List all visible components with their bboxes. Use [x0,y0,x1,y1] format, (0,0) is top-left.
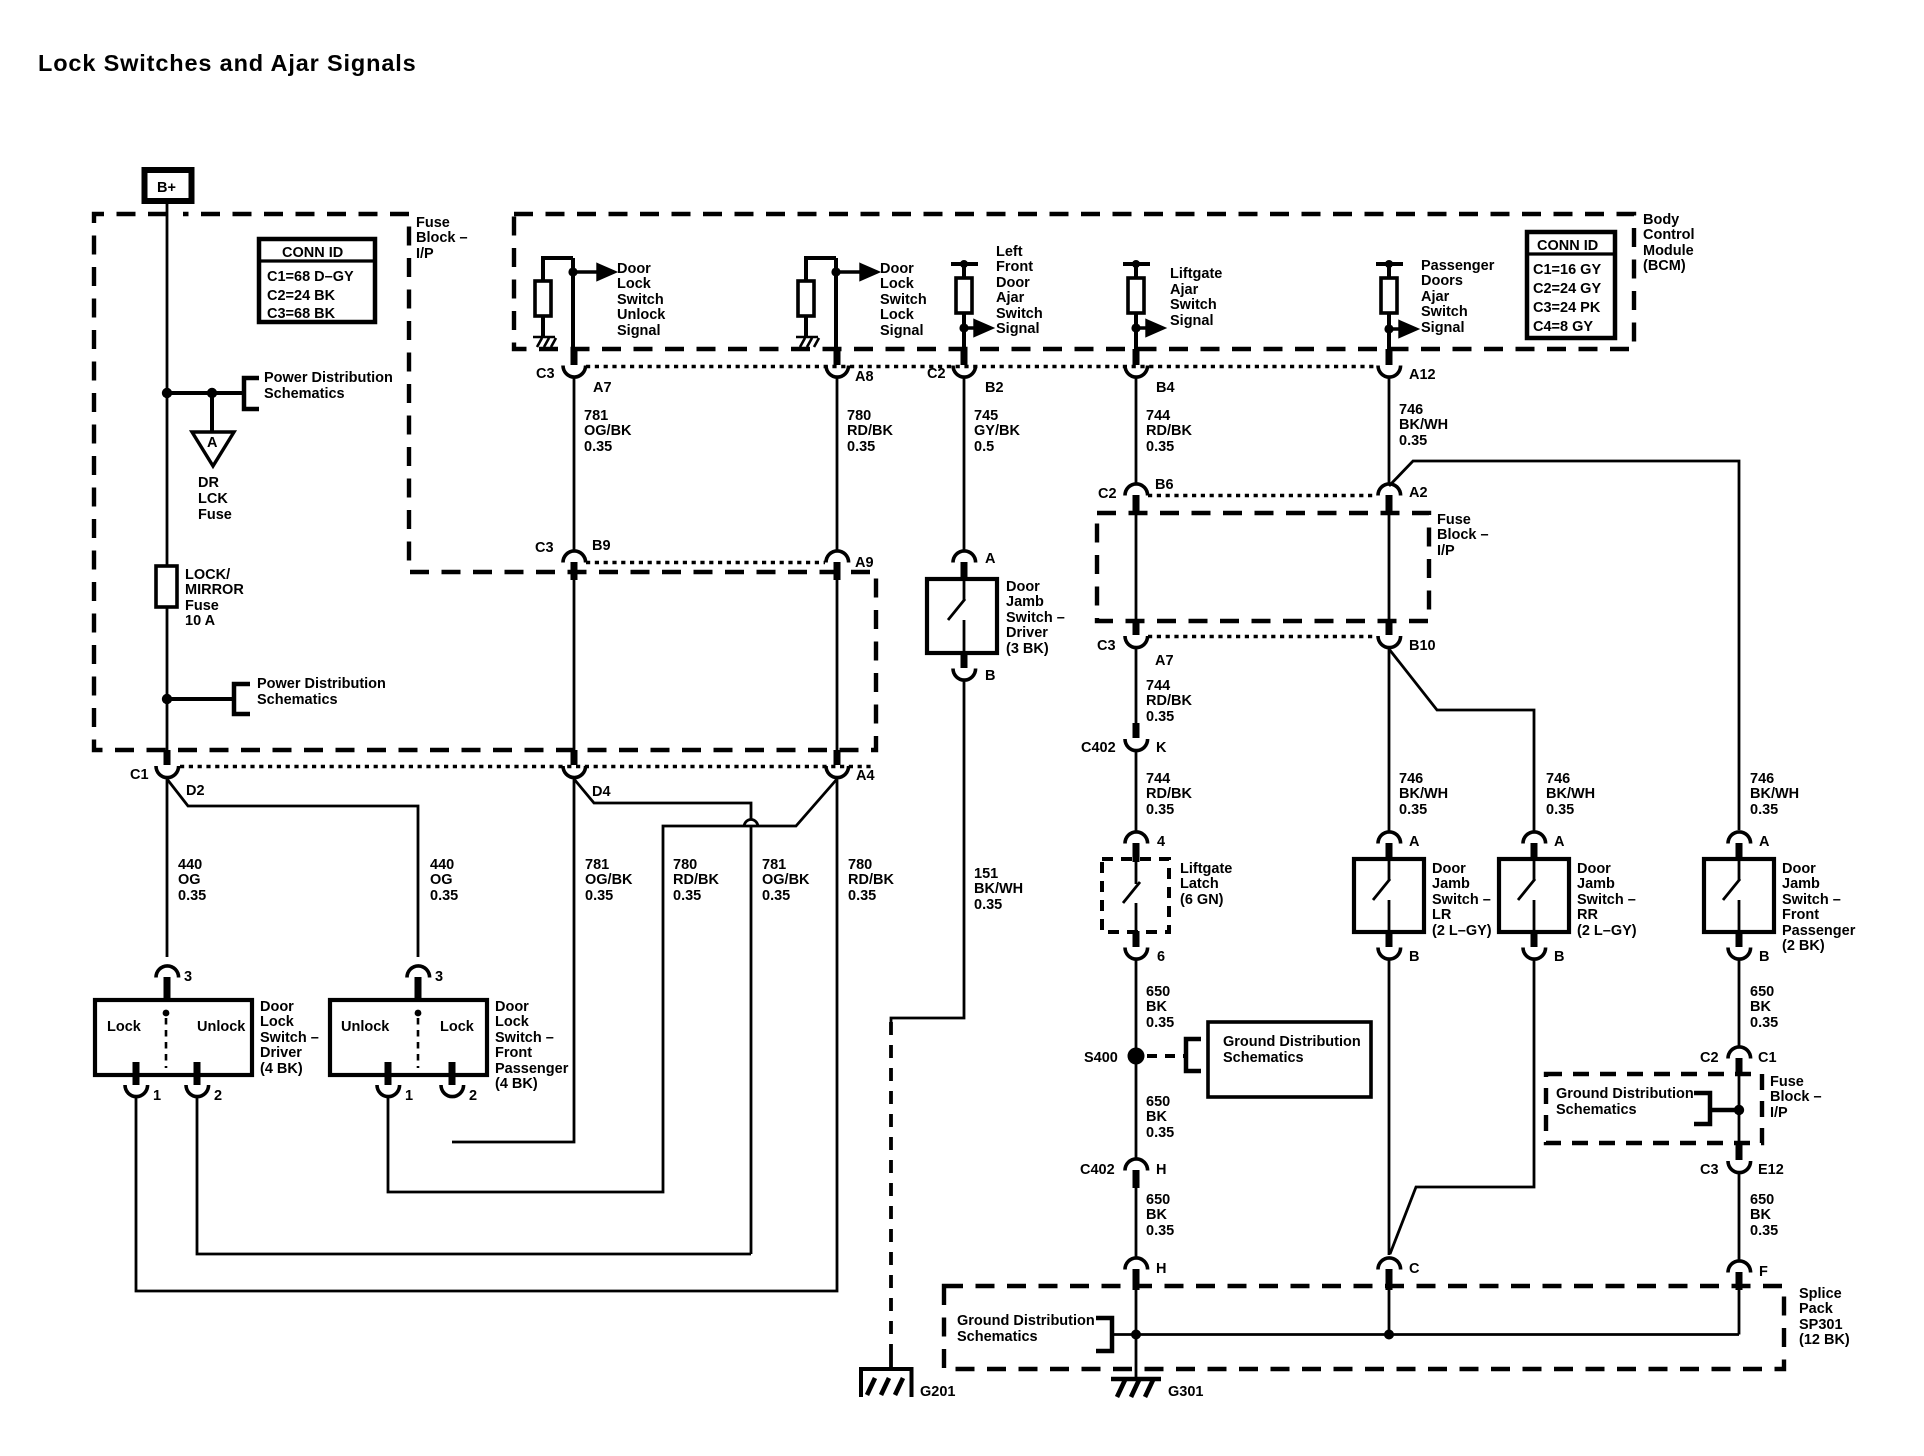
wire hop over 826 line [744,820,758,1255]
wire A2 feed to front passenger jamb column [1389,461,1739,830]
svg-text:0.35: 0.35 [585,888,613,904]
svg-text:Unlock: Unlock [617,307,666,323]
svg-text:Passenger: Passenger [1421,258,1495,274]
svg-text:C3: C3 [1097,638,1116,654]
svg-text:6: 6 [1157,949,1165,965]
connector C1/D2 cup [156,766,179,778]
svg-text:Ground Distribution: Ground Distribution [1223,1034,1361,1050]
svg-text:440: 440 [178,857,202,873]
connector C3/B9 cap [563,551,586,563]
svg-text:RD/BK: RD/BK [673,872,719,888]
svg-text:Signal: Signal [1170,313,1214,329]
wire 650 BK from RR jamb merging at C [1390,959,1534,1254]
wire D2 to passenger lock switch pin 3 [167,779,418,957]
svg-text:Switch: Switch [617,292,664,308]
Fuse Block - I/P dashed outline (left, stepped) [94,214,876,750]
svg-text:C402: C402 [1081,740,1116,756]
svg-text:RR: RR [1577,907,1598,923]
svg-text:Unlock: Unlock [197,1019,246,1035]
svg-text:0.35: 0.35 [1146,802,1174,818]
switch S1 Door Lock Switch - Driver [95,1000,252,1075]
wire D4 diagonal branch (781 OG/BK to driver pin 2) [574,779,751,819]
svg-text:0.35: 0.35 [1399,802,1427,818]
wire to DR LCK fuse triangle [210,393,214,432]
connector B4 pin stub [1133,349,1140,365]
svg-text:1: 1 [153,1088,161,1104]
svg-text:I/P: I/P [1770,1105,1788,1121]
svg-text:A8: A8 [855,369,874,385]
label Left Front Door Ajar Switch Signal [996,244,1043,337]
node arrow junction branch 5 [1384,324,1393,333]
connector B stub (FP jamb switch) [1736,931,1743,947]
svg-text:Signal: Signal [996,321,1040,337]
svg-text:Liftgate: Liftgate [1170,266,1222,282]
connector A cap (LR jamb switch) [1378,832,1401,844]
resistor R3 (LF door ajar input) [951,260,978,351]
wire 650 BK from LR jamb to splice C [1388,959,1391,1255]
connector A cap (FP jamb switch) [1728,832,1751,844]
svg-text:C3=24 PK: C3=24 PK [1533,300,1601,316]
connector pin 2 stub (passenger) [449,1062,456,1085]
svg-text:Schematics: Schematics [1223,1050,1304,1066]
connector pin 2 cup (passenger) [441,1085,464,1097]
svg-text:A: A [1554,834,1565,850]
Body Control Module dashed box [514,214,1634,349]
label Fuse Block - I/P (2) [1437,512,1489,559]
connector C2/C1 cap [1728,1047,1751,1059]
wire inside fuse block (A9 to A4) [836,580,839,751]
label Door Jamb Switch - LR (2 L-GY) [1432,861,1492,939]
connector C3/E12 cup [1728,1161,1751,1173]
svg-text:I/P: I/P [416,246,434,262]
bracket S400 reference [1186,1039,1201,1071]
svg-text:Ground Distribution: Ground Distribution [1556,1086,1694,1102]
resistor R5 (passenger doors ajar input) [1376,260,1403,351]
wire H drop to bus [1135,1290,1138,1378]
svg-text:BK/WH: BK/WH [1750,786,1799,802]
svg-text:A4: A4 [856,768,875,784]
svg-text:0.35: 0.35 [1146,1223,1174,1239]
svg-text:C402: C402 [1080,1162,1115,1178]
connector pin 3 stub (passenger lock switch) [415,977,422,1001]
svg-text:0.35: 0.35 [848,888,876,904]
wire inside fuse block 2 (A2 to B10) [1388,514,1391,621]
wire inside fuse block 2 (B6 to A7) [1135,514,1138,621]
svg-text:B: B [1759,949,1769,965]
connector B stub (driver jamb switch) [961,653,968,668]
label wire 151 BK/WH 0.35 [974,866,1023,913]
node arrow junction branch 4 [1131,323,1140,332]
svg-text:A12: A12 [1409,367,1436,383]
svg-text:C3: C3 [536,366,555,382]
switch S6 Door Jamb Switch - RR [1499,859,1569,932]
label wire 440 OG 0.35 (passenger) [430,857,458,904]
resistor R2 (lock signal pull-up) [798,258,836,337]
wire 780 RD/BK from A8 to A9 [836,377,839,551]
svg-text:0.35: 0.35 [974,897,1002,913]
label wire 745 GY/BK 0.5 [974,408,1020,455]
wire splice bus SP301 [1112,1333,1739,1336]
connector C402/H pin stub [1133,1170,1140,1188]
svg-text:CONN ID: CONN ID [282,245,343,261]
svg-text:0.35: 0.35 [430,888,458,904]
connector D4 pin stub [571,750,578,765]
svg-text:OG/BK: OG/BK [762,872,810,888]
wire 650 BK from C402 H to splice H [1135,1188,1138,1258]
node junction C on bus [1384,1330,1394,1340]
connector H cap (splice pack) [1125,1258,1148,1270]
svg-text:Signal: Signal [617,323,661,339]
svg-text:H: H [1156,1261,1166,1277]
resistor R4 (liftgate ajar input) [1123,260,1150,351]
svg-text:0.35: 0.35 [1750,1223,1778,1239]
wire inside fuse block 3 [1738,1075,1741,1143]
svg-text:Left: Left [996,244,1023,260]
svg-text:B10: B10 [1409,638,1436,654]
svg-text:650: 650 [1146,984,1170,1000]
label wire 780 RD/BK 0.35 (lower right) [848,857,894,904]
label wire 746 BK/WH 0.35 (RR) [1546,771,1595,818]
svg-text:(2 L–GY): (2 L–GY) [1577,923,1637,939]
label Ground Distribution Schematics (splice pack) [957,1313,1095,1345]
connector C3/A7 (fuse block) cup [1125,636,1148,648]
svg-text:Schematics: Schematics [264,386,345,402]
connector C402/K cup [1125,739,1148,751]
bracket fuse block 3 reference [1694,1093,1735,1124]
ground G301 [1111,1379,1203,1400]
connector 6 cup (liftgate latch) [1125,948,1148,960]
signal arrow branch 4 [1136,321,1163,335]
label wire 744 RD/BK 0.35 (upper) [1146,408,1192,455]
connector C3/A7 cup [563,366,586,378]
wire dashed drop to G201 [889,1022,893,1352]
Splice Pack SP301 dashed box [944,1286,1784,1369]
wire 781 OG/BK from A7 to B9 [573,377,576,551]
svg-text:C1=16 GY: C1=16 GY [1533,262,1601,278]
svg-text:Jamb: Jamb [1432,876,1470,892]
svg-text:C4=8 GY: C4=8 GY [1533,319,1593,335]
wire BCM branch 1 vertical [571,258,575,351]
label wire 780 RD/BK 0.35 (upper) [847,408,893,455]
svg-text:Switch –: Switch – [1577,892,1636,908]
svg-text:746: 746 [1546,771,1570,787]
svg-text:C3: C3 [1700,1162,1719,1178]
connector pin 2 stub (driver) [194,1062,201,1085]
svg-text:2: 2 [214,1088,222,1104]
svg-text:Latch: Latch [1180,876,1219,892]
node junction at power distribution tap 1 [162,388,172,398]
connector B10 cup [1378,636,1401,648]
connector B cup (LR jamb switch) [1378,948,1401,960]
node splice S400 [1128,1048,1145,1065]
svg-text:Ground Distribution: Ground Distribution [957,1313,1095,1329]
label wire 746 BK/WH 0.35 (FP) [1750,771,1799,818]
svg-text:0.35: 0.35 [673,888,701,904]
label wire 650 BK 0.35 (liftgate lower) [1146,1192,1174,1239]
svg-text:C1=68 D–GY: C1=68 D–GY [267,269,354,285]
ground G201 [861,1367,955,1400]
svg-text:Switch –: Switch – [495,1030,554,1046]
connector row dotted line D2-D4-A4 [180,765,874,768]
svg-text:BK/WH: BK/WH [1399,417,1448,433]
svg-text:Jamb: Jamb [1006,594,1044,610]
wire BCM branch 2 vertical [834,258,838,351]
svg-text:B: B [1409,949,1419,965]
svg-text:Lock: Lock [617,276,652,292]
svg-text:OG/BK: OG/BK [584,423,632,439]
wire B+ vertical feed [166,203,169,756]
svg-text:Lock: Lock [107,1019,142,1035]
svg-text:650: 650 [1750,984,1774,1000]
svg-text:Schematics: Schematics [257,692,338,708]
svg-text:151: 151 [974,866,998,882]
wire inside fuse block (B9 to D4) [573,580,576,751]
svg-text:0.35: 0.35 [1146,1125,1174,1141]
svg-text:RD/BK: RD/BK [847,423,893,439]
signal arrow branch 2 [836,265,877,279]
wire tap to power distribution bracket 2 [167,697,234,701]
svg-text:0.35: 0.35 [1750,1015,1778,1031]
svg-text:Switch: Switch [880,292,927,308]
svg-text:BK/WH: BK/WH [974,881,1023,897]
svg-text:C3: C3 [535,540,554,556]
svg-text:Ajar: Ajar [1421,289,1450,305]
connector B cup (driver jamb switch) [953,669,976,681]
connector C2/B6 cap [1125,484,1148,496]
svg-text:(4 BK): (4 BK) [495,1076,538,1092]
svg-text:A7: A7 [1155,653,1174,669]
connector C402/H cap [1125,1159,1148,1171]
connector pin 2 cup (driver) [186,1085,209,1097]
bracket splice pack reference [1096,1318,1112,1351]
label wire 781 OG/BK 0.35 (lower left) [585,857,633,904]
svg-text:B4: B4 [1156,380,1175,396]
label Passenger Doors Ajar Switch Signal [1421,258,1495,336]
connector C3/A7 (fuse block) pin stub [1133,620,1140,635]
connector row dotted line B9-A9 [586,561,825,564]
svg-text:Switch: Switch [996,306,1043,322]
connector pin 1 cup (driver) [125,1085,148,1097]
svg-text:OG/BK: OG/BK [585,872,633,888]
label wire 744 RD/BK 0.35 (lower) [1146,771,1192,818]
svg-text:Lock: Lock [495,1014,530,1030]
svg-text:Block –: Block – [1437,527,1489,543]
svg-text:I/P: I/P [1437,543,1455,559]
svg-text:0.35: 0.35 [847,439,875,455]
wire B10 to LR jamb switch [1388,648,1391,832]
svg-text:780: 780 [847,408,871,424]
connector F cap (splice pack) [1728,1261,1751,1273]
node junction triangle tap [207,388,217,398]
label wire 744 RD/BK 0.35 (mid) [1146,678,1192,725]
svg-text:OG: OG [178,872,201,888]
svg-text:780: 780 [848,857,872,873]
svg-text:Liftgate: Liftgate [1180,861,1232,877]
label Splice Pack SP301 (12 BK) [1799,1286,1850,1348]
svg-text:C1: C1 [1758,1050,1777,1066]
svg-text:(12 BK): (12 BK) [1799,1332,1850,1348]
wire D4 down (781 OG/BK to passenger pin 2) [452,779,574,1142]
svg-text:Fuse: Fuse [198,507,232,523]
node arrow junction branch 3 [959,323,968,332]
svg-text:Unlock: Unlock [341,1019,390,1035]
svg-text:Lock: Lock [440,1019,475,1035]
svg-text:A: A [207,435,218,451]
connector C2/B2 pin stub [961,349,968,365]
label Door Lock Switch - Driver (4 BK) [260,999,319,1077]
svg-text:A2: A2 [1409,485,1428,501]
svg-text:Ajar: Ajar [1170,282,1199,298]
svg-text:781: 781 [585,857,609,873]
wire 650 BK from FP jamb to C2/C1 [1738,959,1741,1047]
label Power Distribution Schematics 2 [257,676,386,708]
svg-text:Front: Front [495,1045,532,1061]
ground (BCM internal, branch 2) [796,337,819,347]
svg-text:D2: D2 [186,783,205,799]
label wire 650 BK 0.35 (liftgate upper) [1146,984,1174,1031]
svg-text:(3 BK): (3 BK) [1006,641,1049,657]
svg-text:440: 440 [430,857,454,873]
label Liftgate Ajar Switch Signal [1170,266,1222,329]
svg-text:Signal: Signal [1421,320,1465,336]
svg-text:B: B [985,668,995,684]
label Door Lock Switch - Front Passenger (4 BK) [495,999,569,1092]
svg-text:Front: Front [996,259,1033,275]
svg-text:BK: BK [1146,1109,1167,1125]
svg-text:Door: Door [996,275,1030,291]
Fuse Block - I/P dashed box 2 [1097,513,1429,621]
node junction at fuse block 3 [1734,1105,1744,1115]
svg-text:Switch –: Switch – [1006,610,1065,626]
label wire 440 OG 0.35 (driver) [178,857,206,904]
svg-text:Lock Switches and Ajar Signals: Lock Switches and Ajar Signals [38,50,417,76]
connector A stub (FP jamb switch) [1736,843,1743,860]
switch S2 Door Lock Switch - Front Passenger [330,1000,487,1075]
svg-text:746: 746 [1750,771,1774,787]
svg-text:BK: BK [1146,999,1167,1015]
svg-text:Switch –: Switch – [1782,892,1841,908]
svg-text:650: 650 [1146,1192,1170,1208]
connector B stub (RR jamb switch) [1531,931,1538,947]
Fuse Block - I/P label (top) [416,215,468,262]
connector C pin stub (splice pack) [1386,1269,1393,1290]
label Body Control Module (BCM) [1643,212,1695,274]
label wire 746 BK/WH 0.35 (upper) [1399,402,1448,449]
svg-text:746: 746 [1399,402,1423,418]
svg-text:650: 650 [1750,1192,1774,1208]
svg-text:(2 L–GY): (2 L–GY) [1432,923,1492,939]
svg-text:RD/BK: RD/BK [1146,423,1192,439]
connector A2 pin stub [1386,495,1393,514]
svg-text:DR: DR [198,475,219,491]
svg-text:Lock: Lock [260,1014,295,1030]
connector pin 3 cap (driver lock switch) [156,966,179,978]
svg-text:Ajar: Ajar [996,290,1025,306]
svg-text:Driver: Driver [260,1045,302,1061]
connector A stub (driver jamb switch) [961,562,968,580]
svg-text:C: C [1409,1261,1420,1277]
svg-text:OG: OG [430,872,453,888]
svg-text:C2=24 BK: C2=24 BK [267,288,336,304]
svg-text:Door: Door [1006,579,1040,595]
svg-text:A: A [985,551,996,567]
svg-text:Fuse: Fuse [1437,512,1471,528]
wire 744 RD/BK from A7 to C402 K [1135,648,1138,724]
switch S5 Door Jamb Switch - LR [1354,859,1424,932]
svg-text:2: 2 [469,1088,477,1104]
resistor R1 (unlock signal pull-up) [535,258,573,337]
svg-text:0.35: 0.35 [1546,802,1574,818]
connector F pin stub (splice pack) [1736,1272,1743,1290]
connector A4 pin stub [834,750,841,765]
connector row dotted line A7-B10 [1148,635,1376,638]
svg-text:Lock: Lock [880,307,915,323]
connector B4 cup [1125,366,1148,378]
svg-text:3: 3 [184,969,192,985]
svg-text:BK/WH: BK/WH [1399,786,1448,802]
svg-text:650: 650 [1146,1094,1170,1110]
svg-text:BK: BK [1750,1207,1771,1223]
svg-text:BK/WH: BK/WH [1546,786,1595,802]
wire B10 diagonal branch to RR jamb switch [1389,649,1534,832]
connector A4 cup [826,766,849,778]
connector A9 pin stub [834,562,841,580]
node junction H on bus [1131,1330,1141,1340]
svg-text:BK: BK [1146,1207,1167,1223]
connector A8 cup [826,366,849,378]
connector C2/B2 cup [953,366,976,378]
svg-text:Door: Door [880,261,914,277]
svg-text:Block –: Block – [1770,1089,1822,1105]
label wire 781 OG/BK 0.35 (lower right) [762,857,810,904]
svg-text:A9: A9 [855,555,874,571]
svg-text:3: 3 [435,969,443,985]
connector C cap (splice pack) [1378,1258,1401,1270]
connector H pin stub (splice pack) [1133,1269,1140,1290]
svg-text:0.35: 0.35 [1750,802,1778,818]
svg-text:RD/BK: RD/BK [1146,786,1192,802]
label Power Distribution Schematics 1 [264,370,393,402]
wire C drop to bus [1388,1290,1391,1335]
wire 744 RD/BK from K to liftgate latch [1135,750,1138,832]
label Door Jamb Switch - RR (2 L-GY) [1577,861,1637,939]
Fuse Block - I/P dashed box 3 [1546,1074,1762,1143]
svg-text:C3=68 BK: C3=68 BK [267,306,336,322]
svg-text:G301: G301 [1168,1384,1203,1400]
wire dashed reference from S400 [1147,1054,1184,1058]
svg-text:4: 4 [1157,834,1165,850]
connector A12 cup [1378,366,1401,378]
svg-text:Control: Control [1643,227,1695,243]
signal arrow branch 5 [1389,322,1416,336]
svg-text:B: B [1554,949,1564,965]
svg-text:0.35: 0.35 [1146,439,1174,455]
svg-text:744: 744 [1146,678,1170,694]
svg-text:10 A: 10 A [185,613,216,629]
CONN ID table (BCM) [1527,232,1615,338]
label Fuse Block - I/P (3) [1770,1074,1822,1121]
connector A2 cap [1378,484,1401,496]
svg-text:744: 744 [1146,771,1170,787]
connector 4 cap (liftgate latch) [1125,832,1148,844]
svg-text:S400: S400 [1084,1050,1118,1066]
connector C1/D2 pin stub [164,750,171,765]
wire 650 BK from liftgate latch to S400 [1135,959,1138,1159]
svg-text:Schematics: Schematics [957,1329,1038,1345]
label Door Lock Switch Lock Signal [880,261,927,339]
connector C402/K pin stub [1133,723,1140,738]
label wire 650 BK 0.35 (liftgate mid) [1146,1094,1174,1141]
